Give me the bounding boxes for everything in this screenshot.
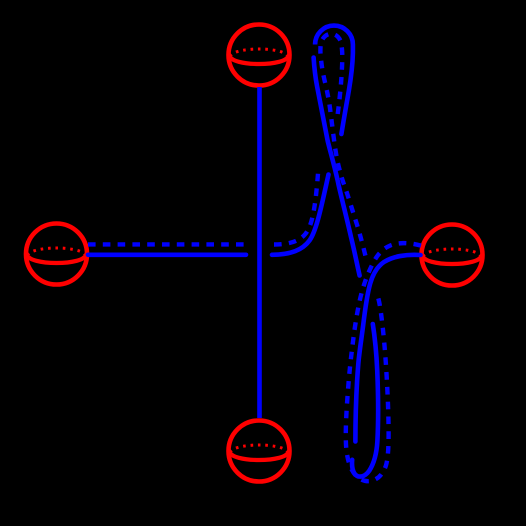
S_left equator back arc (dotted) [28, 248, 85, 255]
S_bottom outline [229, 421, 290, 482]
S_left equator front arc [28, 256, 85, 264]
S_left outline [26, 224, 87, 285]
band dashed push-off [88, 34, 421, 481]
right side of top loop from X to cap [315, 26, 353, 134]
band solid core [88, 26, 421, 477]
S_right outline [422, 225, 483, 286]
S_right equator back arc (dotted) [424, 249, 481, 257]
S_right equator front arc [424, 257, 481, 265]
vertical strand (over) [257, 87, 262, 418]
horizontal left segment [88, 253, 246, 258]
S_top equator front arc [231, 57, 288, 65]
horizontal left dashed [88, 242, 249, 246]
sphere S_left [26, 224, 87, 285]
S_bottom equator front arc [231, 453, 288, 461]
left side of loop down through X to crossing2 (over strand) [314, 58, 360, 276]
big dashed: right sphere, down left side, U, up right side [346, 243, 421, 481]
sphere S_right [422, 225, 483, 286]
S_top equator back arc (dotted) [231, 49, 288, 56]
sphere S_bottom [229, 421, 290, 482]
hook: resume below crossing2, down, U-turn, up to tip [352, 324, 378, 477]
curve up from center to X (under end) [272, 175, 329, 255]
sphere S_top [229, 25, 290, 86]
dashed inner loop: right column up, cap, left column, through X, down to crossing2 [320, 34, 366, 259]
S_top outline [229, 25, 290, 86]
dashed curve up to X (under end) [274, 169, 318, 245]
S_bottom equator back arc (dotted) [231, 445, 288, 453]
B strand: right sphere to bottom end [355, 255, 420, 442]
